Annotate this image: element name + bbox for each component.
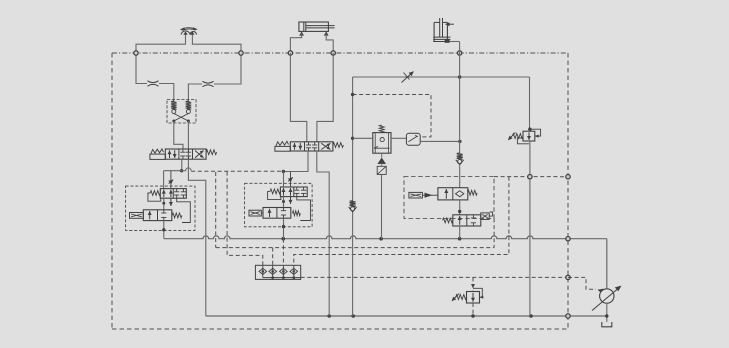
pressure bus P rail [164,236,607,239]
wire supply drop [459,42,461,188]
wire motor B line [188,53,241,100]
wire C1 left port [290,34,301,54]
bus crossing ring [566,237,570,241]
tank symbol [602,322,612,327]
RV1 crossing ring [528,175,532,179]
check/filter F2 [377,158,386,175]
wire comp2 inlet [283,172,285,187]
pilot drain line bottom edge (dashed) [112,328,568,330]
wire C1A to DCV2 [290,53,306,142]
wire LV2 to bus [459,226,461,239]
wire pump bottom [605,303,608,322]
pressure compensator PC2 [268,187,308,200]
pilot rail rings [134,51,462,55]
cylinder C2 (plunger) [433,18,454,43]
LS output rings [566,275,570,279]
LS drop check3 (dashed) [282,239,284,266]
wire A to valve P [174,121,183,149]
selector valve SV1 [130,210,182,221]
LS rail right (dashed) [494,176,568,178]
wire motor right branch [192,35,241,53]
wire DCV1 LS hop [182,168,192,171]
check valve CV2 [349,201,357,212]
wire comp2 outlet [282,197,285,208]
shuttle manifold SM1 [255,265,300,279]
LS measuring arrow mid [288,177,293,182]
pilot line top rail (dash-dot) [112,52,568,54]
DCV2 right spring [333,143,344,148]
wire P drop right [529,77,531,129]
wire DCV1 P port [180,159,183,172]
LS branch a (dashed) [215,172,217,248]
LS rail mid (dashed) [216,247,494,249]
LS line to manifold (dashed) [191,170,283,172]
wire P top rail [353,75,530,79]
wire block1 outlet [162,221,165,239]
pilot valve F1 [373,125,391,153]
comp1 pilot to spring2 [177,198,191,222]
LS measuring arrow left [168,180,173,185]
wire C1 right port [326,34,333,54]
RV2 pilot top (dashed) [471,277,475,291]
right block enclosure [404,177,494,219]
left block enclosure [126,186,195,230]
comp2 down arrow [289,197,293,204]
hydraulic motor M1 [180,27,198,35]
wire motor left branch [136,35,186,53]
LS drop check2 (dashed) [272,248,274,266]
pump control line (dashed) [568,277,596,289]
directional valve DCV1 body [165,149,206,159]
logic valve LV2 [443,212,493,226]
wire F2 to bus [381,164,383,239]
cylinder C1 (boom) [299,22,335,36]
throttle A [148,81,159,86]
LS output (dashed) [301,276,568,278]
shut-off symbol [402,72,414,83]
check valve CV1 [456,153,464,165]
tank bus T rail [206,315,606,317]
directional valve DCV2 body [290,142,333,151]
switch valve G1 [406,133,420,145]
pressure compensator PC1 [148,189,186,202]
variable pump P1 [592,286,622,311]
LS up branch (dashed) [493,219,495,248]
wire DCV1 A feed [164,170,182,172]
comp2 pilot to spring [297,197,311,221]
wire LV1 to LV2 [458,200,461,215]
tank bus dots [327,314,532,318]
LS branch b (dashed) [227,172,263,266]
wire F1 inline [353,137,407,139]
relief valve RV2 [452,288,484,303]
pilot drain line left edge (dashed) [111,53,113,329]
comp1 down arrow [169,198,173,206]
wire F1 drain down [381,153,383,157]
DCV1 right spring [206,150,217,155]
bus junction dots [282,237,462,241]
wire DCV1 T return [188,159,205,316]
wire C2 port [450,41,460,43]
wire block2 outlet [282,218,285,239]
wire comp1 outlet [162,198,165,210]
tank bus crossing ring [566,314,570,318]
DCV2 solenoid and spring [275,141,290,151]
wire DCV2 P port [282,151,308,173]
LS rail end ring [566,175,570,179]
middle block enclosure [245,183,313,227]
LS measuring line mid [290,172,292,187]
pilot drain line right edge (dashed) [567,53,569,329]
wire B through valve [187,121,189,159]
pilot to G1 (dashed) [353,95,431,137]
logic valve LV1 [409,188,477,200]
wire C1B to DCV2 [317,53,333,142]
RV2 drain (dashed) [472,303,474,316]
wire G1 out [420,140,461,143]
relief valve RV1 [508,129,541,144]
wire compensator inlet left [163,171,165,189]
LS measuring line left [170,171,172,189]
wire DCV2 T return [317,151,329,316]
selector valve SV2 [249,208,300,219]
wire motor A line [136,53,174,100]
wire pump top [606,239,608,289]
cross-over relief valve block V1 [167,100,196,124]
LS branch d (dashed) [294,177,509,266]
wire RV1 down [528,128,531,316]
throttle B [203,81,214,86]
drop junction dots [351,93,532,140]
wire P drop left [352,77,354,316]
DCV1 solenoid and spring [150,149,165,160]
